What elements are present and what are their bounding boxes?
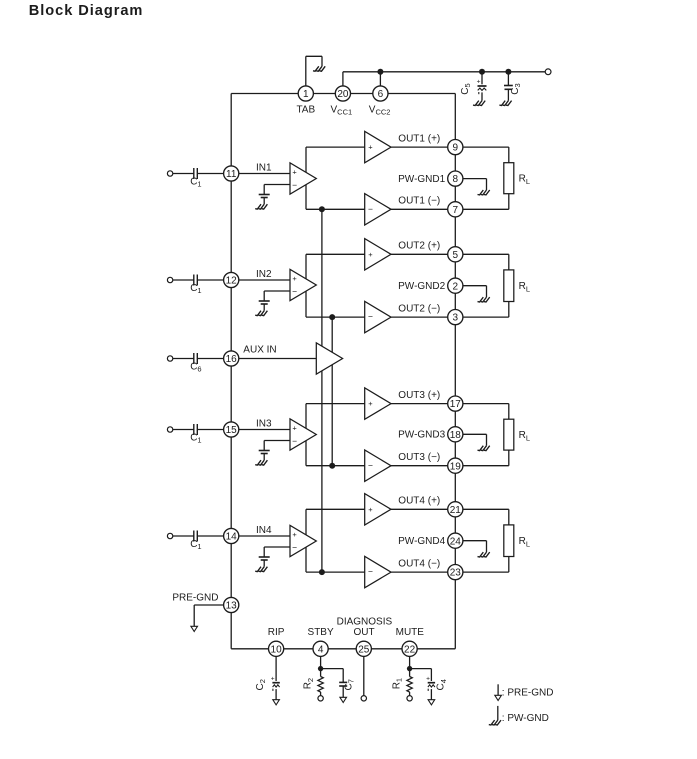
- svg-text:−: −: [368, 312, 373, 322]
- svg-text:11: 11: [226, 169, 237, 180]
- pin 12 IN2: [224, 269, 272, 288]
- pin 23 OUT4 minus: [398, 559, 463, 580]
- pin 22 MUTE: [396, 627, 425, 656]
- node MUTE junction: [407, 666, 412, 671]
- IC block outline: [231, 94, 455, 649]
- svg-text:C2: C2: [255, 679, 267, 690]
- svg-text:1: 1: [303, 89, 309, 100]
- pin 21 OUT4 (+): [398, 496, 463, 517]
- svg-text:9: 9: [453, 143, 459, 154]
- node channel 4 junction: [319, 569, 325, 575]
- node STBY junction: [318, 666, 323, 671]
- wire OUT2- to pin 3: [391, 316, 448, 318]
- pin 24 PW-GND4: [398, 533, 463, 548]
- capacitor C1 (IN1): [167, 168, 223, 189]
- svg-text:3: 3: [453, 313, 459, 324]
- svg-text:6: 6: [378, 89, 384, 100]
- wire IN2 to amp: [239, 279, 290, 281]
- svg-text:−: −: [292, 436, 297, 446]
- svg-text:−: −: [368, 460, 373, 470]
- svg-text:PRE-GND: PRE-GND: [172, 593, 218, 604]
- pin 9 OUT1 (+): [398, 134, 463, 155]
- svg-text:TAB: TAB: [296, 104, 315, 115]
- svg-text:−: −: [292, 287, 297, 297]
- wire DIAGNOSIS OUT: [363, 656, 365, 695]
- svg-text:+: +: [292, 274, 297, 283]
- capacitor C3: [504, 72, 522, 101]
- wire OUT3- to pin 19: [391, 465, 448, 467]
- svg-text:: PRE-GND: : PRE-GND: [502, 688, 554, 699]
- terminal VCC supply: [545, 69, 551, 75]
- wire amp1 inverting input: [264, 185, 290, 195]
- capacitor (IN3 feedback): [259, 451, 270, 461]
- svg-text:+: +: [292, 423, 297, 432]
- pin 2 PW-GND2: [398, 278, 463, 293]
- svg-text:25: 25: [358, 644, 370, 655]
- terminal DIAGNOSIS OUT: [361, 696, 366, 701]
- capacitor C4: [426, 675, 448, 699]
- svg-text:RL: RL: [519, 174, 530, 186]
- node channel 2 junction: [329, 314, 335, 320]
- svg-text:+: +: [368, 505, 373, 514]
- pin 10 RIP: [268, 627, 285, 656]
- svg-text:−: −: [368, 204, 373, 214]
- wire channel 4 box: [306, 509, 365, 572]
- wire MUTE network: [410, 656, 432, 681]
- capacitor (IN2 feedback): [259, 301, 270, 311]
- capacitor C1 (IN4): [167, 531, 223, 552]
- svg-text:15: 15: [226, 425, 238, 436]
- svg-text:VCC2: VCC2: [369, 104, 391, 116]
- pin 5 OUT2 (+): [398, 241, 463, 262]
- wire amp3 inverting input: [264, 441, 290, 451]
- wire OUT1+ to pin 9: [391, 146, 448, 148]
- wire PW-GND2 ground: [463, 286, 487, 297]
- wire IN4 to amp: [239, 535, 290, 537]
- svg-text:C1: C1: [190, 433, 201, 445]
- svg-text:+: +: [271, 675, 275, 682]
- svg-text:IN4: IN4: [256, 525, 272, 536]
- PW-GND (pin 18): [478, 446, 490, 451]
- PW-GND legend symbol: [489, 706, 549, 725]
- op-amp OUT1 (+): [365, 131, 391, 162]
- pin 17 OUT3 (+): [398, 390, 463, 411]
- pin 19 OUT3 minus: [398, 452, 463, 473]
- wire PRE-GND: [194, 605, 224, 626]
- op-amp OUT1 minus: [365, 194, 391, 225]
- wire STBY network: [321, 656, 344, 682]
- wire IN1 to amp: [239, 173, 290, 175]
- svg-text:5: 5: [453, 250, 459, 261]
- op-amp input stage 3: [290, 419, 316, 450]
- svg-text:OUT: OUT: [354, 627, 375, 638]
- svg-text:RIP: RIP: [268, 627, 285, 638]
- op-amp OUT3 minus: [365, 450, 391, 481]
- pin 15 IN3: [224, 418, 272, 437]
- capacitor (IN1 feedback): [259, 195, 270, 205]
- svg-text:RL: RL: [519, 281, 530, 293]
- svg-text:+: +: [292, 530, 297, 539]
- svg-text:+: +: [368, 143, 373, 152]
- pin 7 OUT1 minus: [398, 196, 463, 217]
- pin 25 DIAGNOSIS OUT: [337, 616, 393, 656]
- op-amp OUT4 (+): [365, 494, 391, 525]
- svg-text:7: 7: [453, 205, 459, 216]
- node channel 3 junction: [329, 463, 335, 469]
- capacitor (IN4 feedback): [259, 557, 270, 567]
- pin 20 VCC1: [331, 86, 353, 117]
- node C3 junction: [505, 69, 511, 75]
- svg-text:C6: C6: [190, 362, 201, 374]
- svg-text:4: 4: [318, 644, 324, 655]
- op-amp OUT2 minus: [365, 301, 391, 332]
- svg-text:C7: C7: [343, 679, 355, 690]
- svg-text:OUT1 (+): OUT1 (+): [398, 134, 440, 145]
- svg-text:13: 13: [226, 601, 238, 612]
- resistor R1: [391, 677, 412, 696]
- wire amp2 inverting input: [264, 291, 290, 301]
- pin 8 PW-GND1: [398, 171, 463, 186]
- svg-text:IN1: IN1: [256, 162, 272, 173]
- capacitor C7: [339, 679, 355, 697]
- wire amp4 inverting input: [264, 547, 290, 557]
- op-amp input stage 1: [290, 163, 316, 194]
- wire bus OUT1- to OUT4-: [321, 209, 323, 572]
- wire AUX IN to amp: [239, 358, 317, 360]
- op-amp OUT3 (+): [365, 388, 391, 419]
- node C5 junction: [479, 69, 485, 75]
- wire OUT4+ to pin 21: [391, 508, 448, 510]
- svg-text:OUT4 (−): OUT4 (−): [398, 559, 440, 570]
- resistor RL (channel 1): [504, 163, 530, 194]
- pin 13 PRE-GND: [172, 593, 238, 613]
- svg-text:OUT3 (−): OUT3 (−): [398, 452, 440, 463]
- svg-text:IN2: IN2: [256, 269, 272, 280]
- wire OUT1- to pin 7: [391, 208, 448, 210]
- terminal R1: [407, 696, 412, 701]
- wire OUT4- to pin 23: [391, 571, 448, 573]
- wire load 4: [463, 509, 509, 572]
- PRE-GND (C4): [428, 700, 435, 705]
- wire TAB to PW-GND: [306, 56, 322, 86]
- pin 11 IN1: [224, 162, 272, 181]
- resistor R2: [303, 677, 324, 696]
- svg-text:−: −: [292, 180, 297, 190]
- pin 16 AUX IN: [224, 344, 277, 366]
- svg-text:17: 17: [450, 399, 462, 410]
- svg-text:PW-GND1: PW-GND1: [398, 174, 445, 185]
- terminal R2: [318, 696, 323, 701]
- svg-text:20: 20: [337, 89, 349, 100]
- svg-text:C1: C1: [190, 539, 201, 551]
- svg-text:OUT1 (−): OUT1 (−): [398, 196, 440, 207]
- svg-text:RL: RL: [519, 536, 530, 548]
- svg-text:C1: C1: [190, 283, 201, 295]
- node channel 1 junction: [319, 206, 325, 212]
- svg-text:MUTE: MUTE: [396, 627, 425, 638]
- svg-text:PW-GND2: PW-GND2: [398, 281, 445, 292]
- wire PW-GND4 ground: [463, 541, 487, 552]
- svg-text:R2: R2: [303, 678, 315, 689]
- svg-text:+: +: [368, 399, 373, 408]
- svg-text:+: +: [477, 79, 481, 86]
- svg-text:C5: C5: [460, 83, 472, 94]
- wire channel 3 box: [306, 404, 365, 466]
- PW-GND (IN3): [255, 460, 267, 465]
- svg-text:STBY: STBY: [308, 627, 334, 638]
- svg-text:OUT2 (+): OUT2 (+): [398, 241, 440, 252]
- svg-text:16: 16: [226, 354, 238, 365]
- PW-GND (C3): [499, 101, 511, 106]
- svg-text:R1: R1: [391, 678, 403, 689]
- capacitor C1 (IN2): [167, 275, 223, 296]
- svg-text:2: 2: [453, 281, 459, 292]
- svg-text:22: 22: [404, 644, 416, 655]
- capacitor C6: [167, 353, 223, 374]
- wire bus OUT2- to OUT3-: [331, 317, 333, 466]
- svg-text:−: −: [292, 543, 297, 553]
- svg-text:AUX IN: AUX IN: [243, 344, 276, 355]
- wire IN3 to amp: [239, 429, 290, 431]
- PW-GND (IN1): [255, 204, 267, 209]
- pin 4 STBY: [308, 627, 334, 656]
- op-amp OUT2 (+): [365, 239, 391, 270]
- op-amp input stage 2: [290, 269, 316, 300]
- wire PW-GND1 ground: [463, 179, 487, 190]
- svg-text:+: +: [368, 250, 373, 259]
- capacitor C2: [255, 656, 280, 700]
- svg-text:RL: RL: [519, 430, 530, 442]
- PRE-GND (C7): [340, 697, 347, 702]
- svg-text:OUT4 (+): OUT4 (+): [398, 496, 440, 507]
- svg-text:C4: C4: [436, 679, 448, 690]
- wire channel 2 box: [306, 254, 365, 317]
- svg-text:+: +: [292, 167, 297, 176]
- PRE-GND (pin 13): [191, 626, 198, 631]
- svg-text:IN3: IN3: [256, 418, 272, 429]
- svg-text:10: 10: [271, 644, 283, 655]
- capacitor C1 (IN3): [167, 424, 223, 445]
- svg-text:C1: C1: [190, 177, 201, 189]
- svg-text:8: 8: [453, 174, 459, 185]
- wire load 1: [463, 147, 509, 209]
- wire load 3: [463, 404, 509, 466]
- svg-text:Block Diagram: Block Diagram: [29, 3, 144, 19]
- PW-GND (pin 24): [478, 552, 490, 557]
- svg-text:PW-GND3: PW-GND3: [398, 430, 445, 441]
- svg-text:OUT3 (+): OUT3 (+): [398, 390, 440, 401]
- pin 1 TAB: [296, 86, 315, 116]
- PW-GND (IN4): [255, 567, 267, 572]
- svg-text:: PW-GND: : PW-GND: [502, 713, 549, 724]
- svg-text:+: +: [426, 675, 430, 682]
- PRE-GND (C2): [273, 700, 280, 705]
- PW-GND (IN2): [255, 311, 267, 316]
- svg-text:DIAGNOSIS: DIAGNOSIS: [337, 616, 393, 627]
- wire load 2: [463, 254, 509, 317]
- pin 18 PW-GND3: [398, 427, 463, 442]
- PW-GND (pin 8): [478, 190, 490, 195]
- svg-text:18: 18: [450, 430, 462, 441]
- resistor RL (channel 4): [504, 525, 530, 557]
- svg-text:24: 24: [450, 536, 462, 547]
- wire channel 1 box: [306, 147, 365, 209]
- wire OUT3+ to pin 17: [391, 403, 448, 405]
- svg-text:21: 21: [450, 505, 462, 516]
- svg-text:VCC1: VCC1: [331, 104, 353, 116]
- capacitor C5: [460, 72, 487, 101]
- svg-text:OUT2 (−): OUT2 (−): [398, 304, 440, 315]
- pin 6 VCC2: [369, 86, 391, 117]
- resistor RL (channel 2): [504, 270, 530, 302]
- op-amp AUX: [316, 343, 342, 374]
- svg-text:−: −: [368, 567, 373, 577]
- svg-text:14: 14: [226, 532, 238, 543]
- svg-text:23: 23: [450, 568, 462, 579]
- op-amp OUT4 minus: [365, 556, 391, 587]
- PRE-GND legend symbol: [495, 684, 554, 700]
- resistor RL (channel 3): [504, 419, 530, 450]
- wire VCC supply bus: [343, 72, 548, 86]
- svg-text:PW-GND4: PW-GND4: [398, 536, 445, 547]
- wire OUT2+ to pin 5: [391, 253, 448, 255]
- svg-text:19: 19: [450, 461, 462, 472]
- op-amp input stage 4: [290, 525, 316, 556]
- PW-GND (TAB): [313, 66, 325, 71]
- node VCC2 junction: [377, 69, 383, 75]
- wire PW-GND3 ground: [463, 434, 487, 445]
- PW-GND (C5): [473, 101, 485, 106]
- svg-text:12: 12: [226, 276, 238, 287]
- PW-GND (pin 2): [478, 297, 490, 302]
- pin 3 OUT2 minus: [398, 304, 463, 325]
- pin 14 IN4: [224, 525, 272, 544]
